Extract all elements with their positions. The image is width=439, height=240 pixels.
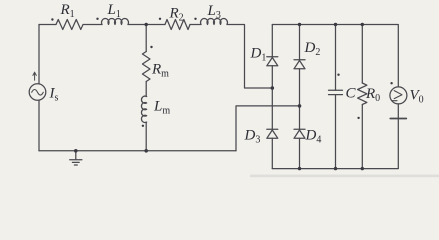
wire left vertical bottom xyxy=(38,100,40,151)
svg-text:C: C xyxy=(346,86,357,102)
node: C bottom xyxy=(334,167,337,170)
node: R0 top xyxy=(361,23,364,26)
inductor L1 xyxy=(102,18,129,24)
resistor R1 xyxy=(56,20,83,30)
resistor R2 xyxy=(165,20,190,30)
polarity dot above C xyxy=(337,74,339,76)
node: D2/D4 midpoint xyxy=(298,104,302,108)
node: D2 top xyxy=(298,23,301,26)
ground xyxy=(70,151,82,165)
voltage source V0 xyxy=(397,25,399,87)
node: junction L1/R2/Rm xyxy=(145,23,148,26)
wire Lm to bottom rail xyxy=(145,122,147,151)
wire L1 to R2 (through node) xyxy=(128,24,165,26)
wire R2 to L3 xyxy=(190,24,201,26)
polarity dot below R0 xyxy=(357,117,359,119)
node: Lm bottom junction xyxy=(144,149,148,153)
diode D2 xyxy=(299,25,301,60)
scan shadow band bottom right xyxy=(250,175,439,178)
wire bridge bottom rail xyxy=(272,168,397,170)
wire AC input 2: up and right to D2/D4 node xyxy=(236,106,300,151)
polarity dot left of R1 xyxy=(51,18,53,20)
node: C top xyxy=(334,23,337,26)
resistor R0 xyxy=(361,25,363,84)
diode D4 xyxy=(294,128,305,130)
node: ground junction xyxy=(74,149,78,153)
polarity dot left of R2 xyxy=(159,18,161,20)
diode D3 xyxy=(267,128,278,130)
polarity dot at Lm bottom xyxy=(142,125,144,127)
wire bridge top rail xyxy=(272,24,397,26)
inductor Lm xyxy=(141,96,146,122)
node: D1/D3 midpoint xyxy=(271,86,275,90)
node: D4 bottom xyxy=(298,167,301,170)
polarity dot left of L3 xyxy=(194,18,196,20)
polarity dot left of L1 xyxy=(96,18,98,20)
polarity dot at Rm top xyxy=(150,46,152,48)
wire bottom-left rail xyxy=(39,150,236,152)
polarity dot left of V0 xyxy=(390,82,392,84)
wire R1 to L1 xyxy=(84,24,103,26)
inductor L3 xyxy=(201,18,228,24)
current source Is xyxy=(29,84,46,101)
wire middle branch top xyxy=(145,25,147,52)
node: R0 bottom xyxy=(361,167,364,170)
wire left vertical top xyxy=(38,25,40,84)
capacitor C xyxy=(335,25,337,91)
resistor Rm xyxy=(142,52,150,82)
wire L3 to top-right corner then down to bridge input xyxy=(227,25,272,89)
wire top from corner to R1 xyxy=(39,24,56,26)
diode D1 xyxy=(271,25,273,57)
wire Rm to Lm xyxy=(145,82,147,97)
